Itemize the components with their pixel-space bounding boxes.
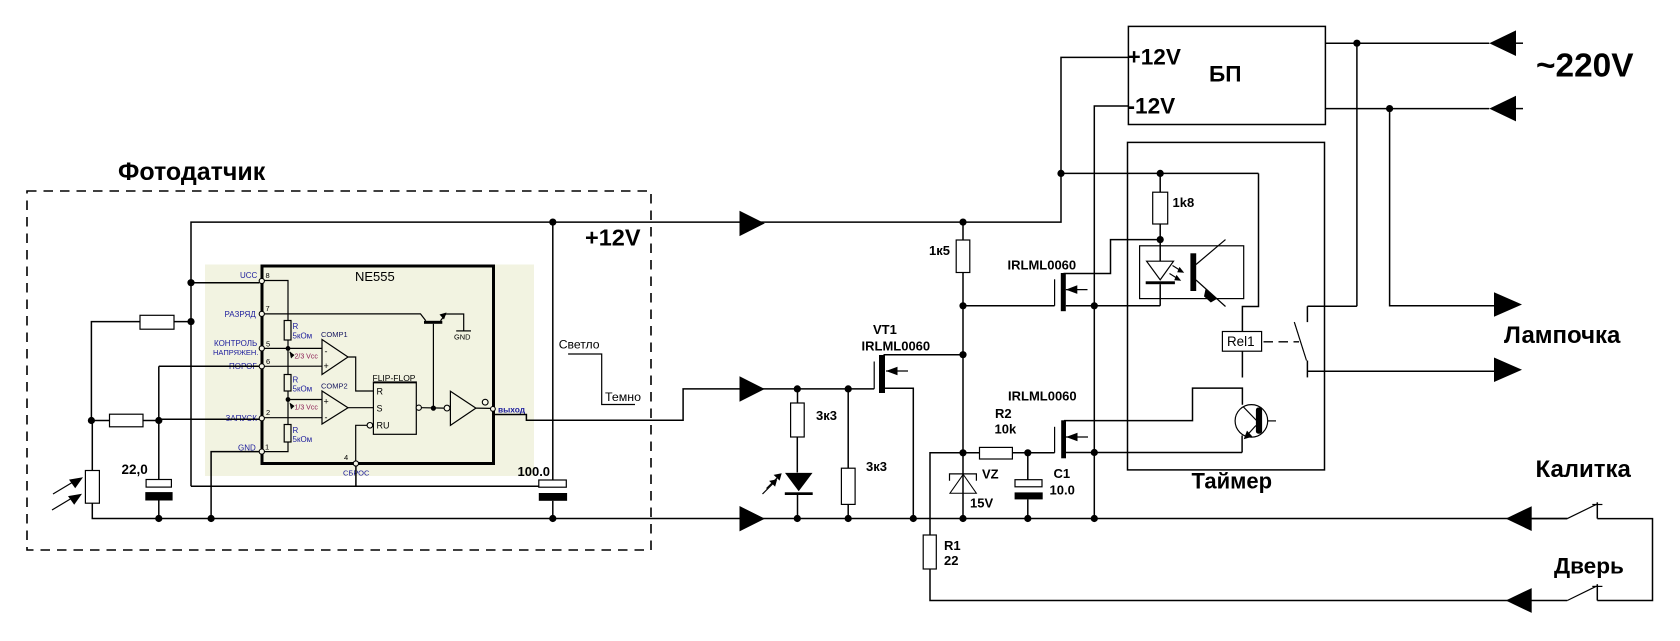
node 2/3 Vcc — [286, 346, 291, 351]
node source/-12V — [1091, 449, 1098, 456]
ground bus — [159, 518, 1568, 520]
ff output circle — [416, 405, 421, 410]
svg-text:NE555: NE555 — [355, 269, 395, 284]
node C1/ground — [1024, 515, 1031, 522]
zener VZ 15V — [950, 474, 977, 481]
node trigger — [155, 417, 162, 424]
node VZ/ground — [959, 515, 966, 522]
wire resistor right — [174, 321, 191, 323]
node +12V branch — [1057, 170, 1064, 177]
node LED/ground — [794, 515, 801, 522]
node R2/VZ — [959, 449, 966, 456]
node 220/lamp — [1386, 105, 1393, 112]
svg-text:-12V: -12V — [1128, 94, 1176, 119]
relay Rel1 — [1222, 332, 1261, 352]
svg-text:COMP1: COMP1 — [321, 330, 348, 339]
resistor 1k8 — [1159, 173, 1161, 192]
arrow lamp top — [1494, 292, 1522, 317]
svg-text:R2: R2 — [995, 406, 1012, 421]
transistor output BJT — [1235, 405, 1268, 438]
wire gnd external — [211, 452, 259, 519]
wire divider — [287, 340, 289, 375]
svg-text:1k8: 1k8 — [1173, 195, 1195, 210]
arrow +12V feed — [740, 211, 765, 236]
wire output — [494, 389, 875, 420]
svg-text:R: R — [293, 322, 299, 331]
pin 5 control — [259, 346, 264, 351]
svg-text:15V: 15V — [970, 496, 993, 511]
svg-text:ЗАПУСК: ЗАПУСК — [226, 414, 258, 423]
pin 2 trigger — [259, 416, 264, 421]
node gate feed upper mosfet — [959, 302, 966, 309]
svg-text:+: + — [324, 397, 329, 407]
svg-text:COMP2: COMP2 — [321, 381, 348, 390]
switch door — [1567, 586, 1596, 600]
svg-text:8: 8 — [266, 271, 270, 280]
svg-text:C1: C1 — [1054, 466, 1071, 481]
timer block box — [1128, 142, 1325, 470]
svg-text:Лампочка: Лампочка — [1504, 322, 1621, 349]
pin 1 gnd — [259, 449, 264, 454]
power supply BP box — [1128, 26, 1325, 124]
resistor 3k3 (LED) — [797, 389, 799, 403]
svg-text:VZ: VZ — [982, 467, 999, 482]
node upper source/-12V — [1091, 302, 1098, 309]
photo-sensor block dashed border — [27, 191, 651, 550]
svg-text:S: S — [377, 404, 383, 414]
svg-text:~220V: ~220V — [1536, 47, 1634, 84]
svg-text:1к5: 1к5 — [929, 243, 950, 258]
svg-text:3к3: 3к3 — [816, 408, 837, 423]
node signal/3k3 — [794, 385, 801, 392]
wire +12V branch to timer — [1061, 172, 1259, 174]
node cap22/ground — [155, 515, 162, 522]
svg-text:выход: выход — [498, 404, 526, 414]
svg-text:IRLML0060: IRLML0060 — [862, 339, 931, 354]
svg-text:R: R — [377, 387, 384, 397]
svg-text:2/3 Vcc: 2/3 Vcc — [295, 354, 319, 361]
wire +12V rail — [191, 57, 1128, 486]
node gnd pin wire — [208, 515, 215, 522]
svg-text:Фотодатчик: Фотодатчик — [118, 158, 266, 186]
output buffer — [444, 405, 450, 411]
svg-text:+: + — [324, 361, 329, 371]
node divider mid — [88, 417, 95, 424]
svg-text:RU: RU — [377, 421, 390, 431]
wire UCC internal — [264, 281, 288, 321]
svg-text:БП: БП — [1209, 62, 1241, 87]
photoresistor — [85, 471, 99, 504]
resistor internal 5kOm top — [284, 321, 291, 341]
node drain VT1 — [959, 351, 966, 358]
switch gate — [1532, 518, 1568, 520]
node R2/C1/gate — [1024, 449, 1031, 456]
node 3k3b/ground — [845, 515, 852, 522]
svg-text:IRLML0060: IRLML0060 — [1008, 389, 1077, 404]
arrow lamp bottom — [1494, 358, 1522, 383]
svg-text:UCC: UCC — [240, 271, 258, 280]
relay contact — [1306, 306, 1308, 322]
node ff out / transistor base — [431, 406, 436, 411]
arrow door line — [1506, 588, 1532, 613]
resistor lower divider — [110, 414, 144, 427]
svg-text:100.0: 100.0 — [518, 464, 551, 479]
arrow 220V top — [1489, 30, 1516, 56]
svg-text:5кОм: 5кОм — [293, 435, 313, 444]
wire BJT emitter — [1241, 436, 1243, 453]
wire lamp switched — [1307, 370, 1494, 372]
svg-text:НАПРЯЖЕН.: НАПРЯЖЕН. — [213, 348, 258, 357]
wire discharge to transistor — [264, 314, 425, 321]
node VT1 source/ground — [910, 515, 917, 522]
pin 4 reset — [353, 461, 358, 466]
svg-text:+12V: +12V — [585, 225, 641, 251]
arrow ground bus — [740, 506, 765, 531]
wire photoresistor bottom — [92, 503, 159, 518]
label 2/3 Vcc — [290, 352, 295, 359]
svg-text:R: R — [293, 426, 299, 435]
opto phototransistor — [1190, 253, 1196, 291]
svg-text:РАЗРЯД: РАЗРЯД — [225, 310, 257, 319]
svg-text:Таймер: Таймер — [1192, 469, 1273, 494]
svg-text:+12V: +12V — [1128, 45, 1181, 70]
label 1/3 Vcc — [290, 403, 295, 410]
wire -12V rail — [1094, 106, 1128, 519]
opto LED — [1147, 261, 1174, 280]
pin 8 UCC — [259, 278, 264, 283]
node signal/3k3b — [845, 385, 852, 392]
arrow output signal — [740, 376, 765, 401]
svg-text:10k: 10k — [995, 422, 1017, 437]
svg-text:Калитка: Калитка — [1536, 456, 1632, 483]
arrow 220V bottom — [1489, 96, 1516, 122]
svg-text:VT1: VT1 — [873, 322, 897, 337]
svg-text:Rel1: Rel1 — [1227, 334, 1255, 349]
LED indicator — [785, 473, 813, 491]
svg-text:КОНТРОЛЬ: КОНТРОЛЬ — [214, 339, 257, 348]
node -12V/ground — [1091, 515, 1098, 522]
node 220/switch — [1353, 40, 1360, 47]
pin 7 discharge — [259, 311, 264, 316]
transistor discharge internal — [424, 321, 442, 324]
wire threshold riser — [158, 366, 160, 479]
svg-text:4: 4 — [344, 453, 348, 462]
svg-text:22: 22 — [944, 553, 958, 568]
resistor internal 5kOm bottom — [284, 425, 291, 443]
node 1k8 top — [1157, 170, 1164, 177]
svg-text:1: 1 — [265, 443, 269, 452]
svg-text:1/3 Vcc: 1/3 Vcc — [295, 405, 319, 412]
svg-text:6: 6 — [266, 357, 270, 366]
optocoupler box — [1140, 246, 1244, 299]
node cap100/ground — [549, 515, 556, 522]
relay dashed link — [1264, 341, 1300, 343]
wire switch live drop — [1356, 43, 1358, 306]
node +12V/100.0 cap — [549, 219, 556, 226]
svg-text:GND: GND — [454, 333, 470, 342]
svg-text:Светло: Светло — [559, 337, 600, 351]
node +12V/1k5 — [959, 219, 966, 226]
pin 6 threshold — [259, 364, 264, 369]
svg-text:R: R — [293, 376, 299, 385]
photoresistor light arrows — [52, 482, 73, 510]
arrow gate line — [1506, 506, 1532, 531]
svg-text:2: 2 — [266, 408, 270, 417]
ground symbol internal — [456, 330, 471, 332]
svg-text:5: 5 — [266, 340, 270, 349]
wire +12V to reset/cap100 — [191, 485, 539, 487]
svg-text:5кОм: 5кОм — [293, 332, 313, 341]
pin RU reset input circle — [367, 423, 373, 429]
node 1k8 bottom / mosfet drain — [1157, 236, 1164, 243]
svg-text:10.0: 10.0 — [1050, 483, 1075, 498]
resistor 3k3 (gate) — [847, 389, 849, 468]
svg-text:-: - — [325, 347, 328, 357]
svg-text:5кОм: 5кОм — [293, 385, 313, 394]
wire lower divider — [91, 420, 109, 422]
wire lamp neutral drop — [1390, 109, 1494, 306]
svg-text:3к3: 3к3 — [866, 459, 887, 474]
wire 220V line top — [1325, 42, 1489, 44]
svg-text:22,0: 22,0 — [122, 462, 148, 477]
wire UCC external — [191, 282, 259, 284]
wire emitter net to relay — [1242, 173, 1258, 331]
svg-text:IRLML0060: IRLML0060 — [1008, 258, 1077, 273]
resistor upper divider — [140, 315, 174, 329]
NE555 shaded background — [205, 265, 534, 477]
wire resistor left to photoresistor node — [91, 322, 140, 421]
resistor internal 5kOm mid — [284, 375, 291, 392]
pin 3 output — [491, 407, 496, 412]
IC NE555 body — [262, 266, 494, 464]
node UCC tap — [187, 279, 194, 286]
node R top tap — [187, 318, 194, 325]
wire reset — [356, 425, 367, 461]
svg-text:R1: R1 — [944, 538, 961, 553]
wire 220V line bottom — [1325, 108, 1489, 110]
wire comp2 out — [348, 407, 373, 409]
svg-text:Темно: Темно — [605, 390, 641, 404]
svg-text:7: 7 — [266, 304, 270, 313]
wire reset to +12V line — [355, 466, 357, 486]
wire comp1 out — [348, 357, 373, 391]
node 1/3 Vcc — [286, 397, 291, 402]
svg-text:-: - — [325, 413, 328, 423]
svg-text:Дверь: Дверь — [1554, 554, 1624, 579]
